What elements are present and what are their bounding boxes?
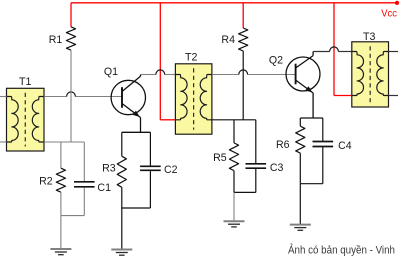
svg-text:T1: T1 <box>19 76 31 88</box>
svg-text:Vcc: Vcc <box>381 7 397 19</box>
svg-text:R6: R6 <box>276 139 290 151</box>
svg-text:C4: C4 <box>338 140 352 152</box>
svg-text:R3: R3 <box>102 163 116 175</box>
svg-text:R5: R5 <box>213 152 227 164</box>
svg-text:R1: R1 <box>49 34 63 46</box>
svg-text:T3: T3 <box>363 31 375 43</box>
svg-text:R2: R2 <box>39 176 53 188</box>
svg-text:R4: R4 <box>221 34 235 46</box>
svg-text:Q1: Q1 <box>104 66 118 78</box>
svg-text:C3: C3 <box>270 162 284 174</box>
svg-text:Q2: Q2 <box>269 55 283 67</box>
svg-text:Ảnh có bản quyền - Vinh: Ảnh có bản quyền - Vinh <box>288 244 395 257</box>
svg-text:T2: T2 <box>185 52 197 64</box>
svg-text:C2: C2 <box>164 164 178 176</box>
svg-text:C1: C1 <box>97 182 111 194</box>
